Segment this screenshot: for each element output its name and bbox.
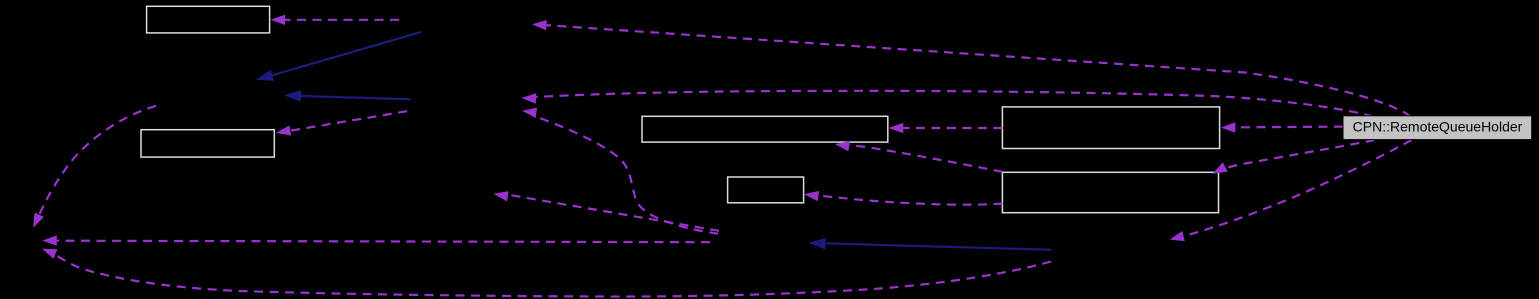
edge F (long horizontal to far left) <box>56 241 710 243</box>
edge G (curve upper-left down to left arrow) <box>36 106 156 222</box>
edge K box6 to box4 <box>816 195 1002 204</box>
blue edge 1 (solid inheritance) <box>268 32 422 77</box>
edge O box5 to box3 <box>900 127 1002 129</box>
edge R CPN box to box5 <box>1232 125 1343 128</box>
node box3 (middle wide, label hidden) <box>642 116 888 142</box>
svg-text:CPN::RemoteQueueHolder: CPN::RemoteQueueHolder <box>1353 119 1523 135</box>
blue edge 3 (solid inheritance) <box>820 243 1052 250</box>
edge N CPN box to lower-left mid-air arrow <box>1182 140 1412 237</box>
edge D (S-curve from bottom junction up to invisible node) <box>534 116 719 234</box>
node box6 (right lower two-line, label hidden) <box>1002 172 1218 212</box>
blue edge 2 (solid inheritance) <box>296 96 411 100</box>
edge H (long bottom arc) <box>48 251 1051 297</box>
node box1 (top-left, label hidden) <box>147 6 270 33</box>
edge B (long top edge to CPN box top) <box>536 25 1411 117</box>
edge E (diagonal into mid-air arrow) <box>505 194 719 231</box>
edge C (long flat edge to invisible node right edge) <box>536 91 1373 117</box>
node box5 (right upper two-line, label hidden) <box>1002 107 1219 149</box>
edge I into box2 <box>287 111 407 131</box>
node CPN::RemoteQueueHolder (current node, grey fill) <box>1343 116 1532 140</box>
edge M CPN box to box6 top-right <box>1216 140 1375 172</box>
node box4 (middle small, label hidden) <box>728 177 804 203</box>
node box2 (left, label hidden) <box>141 130 274 157</box>
edge P box6 to arrow under box3 bottom edge <box>847 145 1002 172</box>
edge A into box1 <box>274 19 399 21</box>
